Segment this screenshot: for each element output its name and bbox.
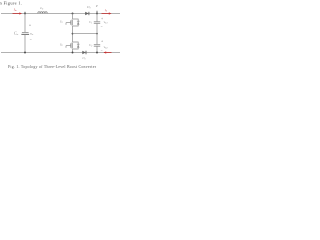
- svg-text:+: +: [29, 23, 31, 27]
- svg-text:−: −: [101, 25, 103, 29]
- svg-text:+: +: [101, 40, 103, 44]
- svg-text:Fig. 1. Topology of Three-Lev: Fig. 1. Topology of Three-Level Boost Co…: [8, 65, 97, 69]
- svg-text:n Figure 1.: n Figure 1.: [0, 1, 22, 6]
- svg-text:−: −: [30, 38, 32, 42]
- svg-text:P: P: [95, 4, 98, 8]
- svg-text:−: −: [101, 49, 103, 53]
